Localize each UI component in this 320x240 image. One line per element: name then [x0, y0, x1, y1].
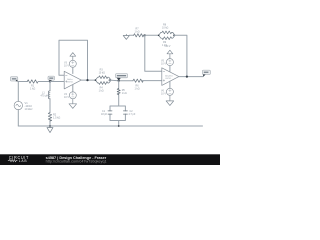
wire junction VB down branch	[49, 82, 51, 127]
svg-text:4.7 pF: 4.7 pF	[129, 113, 136, 116]
op-amp U1	[64, 71, 81, 89]
resistor R6 inline to op2	[133, 79, 162, 91]
resistor R3 parallel pair1 top	[95, 68, 111, 80]
svg-text:10 V: 10 V	[161, 63, 166, 66]
ground left	[47, 125, 53, 133]
svg-text:LM741: LM741	[165, 78, 172, 80]
svg-text:470 μH: 470 μH	[41, 95, 49, 98]
resistor R9 parallel pair2 bottom	[159, 35, 175, 47]
resistor R5	[117, 88, 127, 95]
resistor R7 top	[134, 28, 145, 37]
resistor R1	[27, 80, 38, 91]
svg-text:10 V: 10 V	[64, 64, 69, 67]
node VB tag + junction	[48, 76, 55, 83]
svg-text:10 V: 10 V	[161, 92, 166, 95]
resistor R2	[48, 112, 60, 121]
wire pair2 to output node	[174, 35, 187, 76]
voltage source V4	[64, 85, 76, 99]
power flag -V op2	[166, 95, 174, 105]
node feedback junction	[144, 34, 146, 36]
svg-text:10 kΩ: 10 kΩ	[162, 27, 169, 30]
resistor R4 parallel pair1 bottom	[95, 80, 111, 93]
svg-text:1.5 kΩ: 1.5 kΩ	[53, 116, 60, 119]
wire op2 output	[179, 76, 203, 78]
node VA tag	[10, 77, 18, 82]
op-amp U2	[162, 68, 179, 86]
voltage source V1	[14, 82, 33, 127]
wire pair1 to junction Vdiv	[110, 79, 134, 82]
node VO tag	[202, 70, 210, 77]
inductor L1	[41, 91, 51, 99]
node Vdiv tag + junction	[116, 74, 128, 82]
svg-text:LAB: LAB	[19, 159, 28, 163]
power flag -V op1	[69, 99, 77, 109]
voltage source V6	[161, 81, 173, 95]
svg-text:10 kHz: 10 kHz	[25, 107, 34, 111]
svg-text:+10 V: +10 V	[164, 46, 171, 48]
CircuitLab logo	[8, 155, 29, 163]
wire Vdiv down	[118, 81, 120, 106]
svg-text:18 pF: 18 pF	[101, 113, 108, 116]
wire feedback box op-amp1	[59, 40, 88, 80]
svg-text:10 V: 10 V	[64, 96, 69, 99]
svg-text:1 kΩ: 1 kΩ	[135, 31, 140, 34]
wire junction to pair2	[145, 34, 159, 36]
capacitor C1 / C2 parallel box	[101, 106, 136, 127]
capacitor C1	[108, 111, 112, 114]
power flag +V op1	[70, 53, 76, 61]
svg-text:LM741: LM741	[67, 82, 74, 84]
svg-text:1 kΩ: 1 kΩ	[99, 90, 104, 93]
resistor R8 parallel pair2 top	[159, 24, 175, 36]
voltage source V5	[161, 59, 173, 72]
footer bar	[0, 154, 220, 165]
wire bottom ground rail	[18, 125, 202, 127]
svg-text:1 kΩ: 1 kΩ	[135, 88, 140, 91]
ground top middle	[123, 34, 133, 39]
wire op1 output	[81, 79, 95, 81]
svg-text:1 kΩ: 1 kΩ	[122, 92, 127, 95]
capacitor C2	[123, 111, 127, 114]
voltage source V3	[64, 60, 76, 73]
power flag +V op2	[164, 46, 172, 59]
wire op1 inputs	[50, 81, 64, 83]
svg-text:1 kΩ: 1 kΩ	[30, 88, 35, 91]
svg-text:http://circuitlab.com/c47w7s0q: http://circuitlab.com/c47w7s0qkeyq1	[46, 160, 107, 164]
svg-text:10 kΩ: 10 kΩ	[99, 71, 106, 74]
wire input horizontal	[18, 81, 64, 83]
wire feedback to op2 inverting input	[145, 35, 162, 71]
